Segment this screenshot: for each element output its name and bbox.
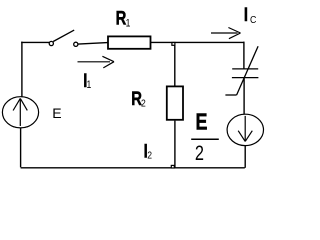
label R1: [116, 8, 127, 29]
svg-text:2: 2: [141, 98, 146, 110]
resistor R1: [108, 36, 151, 48]
current arrow I1: [78, 56, 115, 68]
svg-text:2: 2: [147, 150, 152, 162]
svg-text:2: 2: [195, 141, 204, 164]
wire right rail lower (source to bottom rail): [244, 146, 246, 168]
wire left rail lower: [20, 128, 22, 167]
wire right rail upper (corner to capacitor): [243, 42, 245, 69]
switch S (open): [49, 30, 78, 46]
node junction bottom (R2 to bottom rail): [171, 165, 174, 168]
svg-text:C: C: [250, 14, 256, 26]
label I2: [144, 141, 148, 162]
wire R2 branch upper: [174, 42, 176, 85]
variable capacitor C: [225, 46, 258, 95]
wire top rail middle segment (switch to R1): [78, 43, 107, 45]
label I1: [83, 70, 87, 91]
wire R2 branch lower: [174, 121, 176, 168]
svg-text:1: 1: [126, 18, 131, 30]
resistor R2: [167, 86, 183, 119]
wire top rail left segment: [21, 41, 49, 43]
label R2: [131, 88, 142, 109]
wire left rail upper: [21, 42, 23, 97]
label IC: [244, 4, 248, 25]
svg-text:E: E: [196, 109, 208, 135]
label E/2 fraction: [196, 109, 208, 135]
current arrow IC: [211, 28, 241, 39]
wire right rail middle (capacitor to source): [243, 78, 245, 115]
svg-text:R: R: [116, 8, 127, 29]
current source E (left, arrow up): [2, 97, 38, 128]
wire bottom rail: [21, 167, 245, 169]
current source E/2 (right, arrow down): [227, 114, 263, 145]
svg-text:1: 1: [87, 79, 92, 91]
wire top rail right segment (R1 to right corner): [151, 41, 244, 43]
svg-text:E: E: [52, 105, 61, 121]
svg-text:I: I: [244, 4, 248, 25]
node junction top (R2 to top rail): [172, 43, 175, 46]
